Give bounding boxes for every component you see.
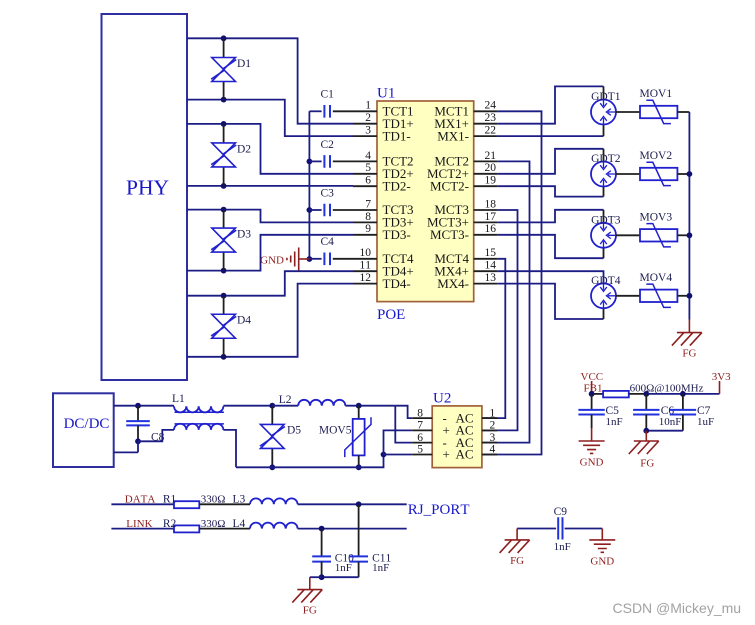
svg-text:13: 13 <box>485 272 497 284</box>
svg-text:600Ω@100MHz: 600Ω@100MHz <box>630 383 704 395</box>
svg-text:PHY: PHY <box>126 176 169 200</box>
wire top rail to U2 pin8 <box>395 406 412 418</box>
U2 right pin 3 <box>482 432 497 444</box>
node MOV3 rail junction <box>687 232 693 238</box>
node C8 top junction <box>135 403 141 409</box>
wire LINK in <box>111 528 174 530</box>
svg-text:5: 5 <box>365 162 371 174</box>
wire C9 to GND <box>565 528 603 530</box>
U1 left pin 11 TD4+ <box>353 260 414 279</box>
U1 left pin 7 TCT3 <box>353 198 414 217</box>
varistor MOV4 <box>640 272 678 307</box>
svg-text:C2: C2 <box>321 139 335 151</box>
node D4 bottom junction <box>221 354 227 360</box>
svg-text:18: 18 <box>485 198 497 210</box>
node LINK/C10 junction <box>319 526 325 532</box>
node C7 junction <box>680 391 686 397</box>
svg-text:1nF: 1nF <box>335 562 352 574</box>
wire PHY pair4- to U1 pin12 TD4- <box>187 284 353 357</box>
svg-text:VCC: VCC <box>581 371 604 383</box>
node D1 bottom junction <box>221 97 227 103</box>
wire GDT2 top stub <box>603 149 605 162</box>
ground GND symbol <box>579 441 605 469</box>
U1 right pin 24 MCT1 <box>434 100 497 119</box>
svg-text:17: 17 <box>485 211 497 223</box>
wire PHY pair1- to U1 pin3 TD1- <box>187 100 353 137</box>
gas discharge tube GDT1 <box>591 91 621 125</box>
svg-text:MX1-: MX1- <box>437 128 469 143</box>
svg-text:8: 8 <box>365 211 371 223</box>
svg-text:10nF: 10nF <box>659 416 682 428</box>
svg-text:TD2-: TD2- <box>383 178 411 193</box>
U2 left pin 8 <box>412 407 473 425</box>
wire bottom rail <box>236 455 384 468</box>
U2 right pin 1 <box>482 407 497 419</box>
svg-text:MOV2: MOV2 <box>640 150 673 162</box>
frame-ground FG symbol <box>292 590 322 617</box>
svg-text:7: 7 <box>417 420 423 432</box>
PHY block <box>102 14 188 380</box>
svg-text:GDT1: GDT1 <box>591 91 621 103</box>
wire U1 pin14 MX4+ to GDT4 top <box>498 271 604 283</box>
wire MOV1 to FG rail <box>677 111 689 113</box>
svg-text:GND: GND <box>590 555 614 567</box>
TVS diode D2 <box>211 143 251 167</box>
svg-text:6: 6 <box>365 175 371 187</box>
capacitor C5 <box>578 394 622 428</box>
U1 right pin 23 MX1+ <box>434 112 497 131</box>
svg-text:FG: FG <box>510 555 524 567</box>
U2 right pin 2 <box>482 420 497 432</box>
wire D4 stubs <box>223 296 225 315</box>
U1 left pin 10 TCT4 <box>353 247 414 266</box>
svg-text:L3: L3 <box>233 493 246 505</box>
wire branch to U2 pin7 <box>384 430 413 454</box>
wire U1 pin22 MX1- to GDT1 bottom <box>498 135 604 137</box>
wire DATA in <box>111 503 174 505</box>
node C6 junction <box>643 391 649 397</box>
U1 left pin 12 TD4- <box>353 272 411 291</box>
svg-text:C9: C9 <box>554 506 568 518</box>
svg-text:4: 4 <box>490 444 496 456</box>
svg-text:GDT3: GDT3 <box>591 214 621 226</box>
wire R1 to L3 <box>199 503 250 505</box>
wire GDT3 bottom stub <box>603 248 605 258</box>
wire C7 bottom to C6 bottom <box>646 430 683 432</box>
frame-ground FG symbol <box>629 441 659 470</box>
wire FB1 to 3V3 <box>646 393 719 395</box>
svg-text:6: 6 <box>417 432 423 444</box>
U1 right pin 17 MCT3+ <box>427 211 498 230</box>
svg-text:20: 20 <box>485 162 497 174</box>
svg-text:C4: C4 <box>321 236 335 248</box>
node D2 top junction <box>221 121 227 127</box>
wire to FG symbol <box>310 576 322 578</box>
node VCC/C5 junction <box>589 391 595 397</box>
node C10/C11 bottom junction <box>319 574 325 580</box>
power port VCC <box>581 371 604 394</box>
varistor MOV1 <box>640 88 678 123</box>
svg-text:3: 3 <box>365 125 371 137</box>
svg-text:22: 22 <box>485 125 497 137</box>
svg-text:12: 12 <box>360 272 372 284</box>
U1 right pin 16 MCT3- <box>430 223 498 242</box>
svg-text:L1: L1 <box>172 393 185 405</box>
wire U1 pin20 MCT2+ to GDT2 top <box>498 149 604 174</box>
svg-text:C3: C3 <box>321 187 335 199</box>
wire GDT to MOV1 <box>616 111 640 113</box>
TVS diode D4 <box>211 314 251 338</box>
inductor L1 common-mode choke <box>172 393 224 430</box>
wire MOV2 to FG rail <box>677 173 689 175</box>
svg-text:CSDN @Mickey_mu: CSDN @Mickey_mu <box>613 600 742 616</box>
wire D5 top to L2 <box>272 405 298 407</box>
wire GDT1 top stub <box>603 86 605 99</box>
resistor R2 <box>163 518 226 532</box>
wire C11 bottom to C10 bottom <box>322 576 359 578</box>
svg-text:3: 3 <box>490 432 496 444</box>
capacitor C7 <box>670 394 714 431</box>
svg-text:RJ_PORT: RJ_PORT <box>408 502 470 518</box>
U2 left pin 7 <box>412 420 473 438</box>
wire C5 to GND <box>591 428 593 441</box>
inductor L3 <box>233 493 298 505</box>
wire PHY pair2- to U1 pin6 TD2- <box>187 185 353 187</box>
wire FG to C9 <box>517 528 556 530</box>
svg-text:10: 10 <box>360 247 372 259</box>
node DATA/C11 junction <box>356 501 362 507</box>
capacitor C8 <box>126 406 164 444</box>
wire PHY pair2+ to U1 pin5 TD2+ <box>187 124 353 174</box>
varistor MOV5 <box>319 406 371 468</box>
U2 left pin 5 <box>412 444 473 462</box>
wire to GND symbol <box>601 529 603 540</box>
svg-text:MOV3: MOV3 <box>640 212 673 224</box>
svg-text:11: 11 <box>360 260 372 272</box>
wire DC/DC bottom output <box>114 441 138 452</box>
wire center-tap cap rail <box>308 111 310 259</box>
node C6/C7 bottom junction <box>643 428 649 434</box>
svg-text:1nF: 1nF <box>372 562 389 574</box>
wire to FG symbol <box>645 431 647 441</box>
U1 right pin 21 MCT2 <box>434 150 497 169</box>
wire branch to U2 pin5 <box>384 454 413 456</box>
svg-text:8: 8 <box>417 407 423 419</box>
svg-text:L4: L4 <box>233 518 246 530</box>
wire R2 to L4 <box>199 528 250 530</box>
svg-text:TD4-: TD4- <box>383 276 411 291</box>
U1 left pin 3 TD1- <box>353 125 411 144</box>
svg-text:GDT2: GDT2 <box>591 153 621 165</box>
TVS diode D1 <box>211 58 251 82</box>
node C8 bottom junction <box>135 438 141 444</box>
wire MOV3 to FG rail <box>677 234 689 236</box>
U1 right pin 22 MX1- <box>437 125 497 144</box>
capacitor C6 <box>633 394 681 431</box>
U1 left pin 5 TD2+ <box>353 162 414 181</box>
TVS diode D5 <box>260 424 301 448</box>
wire C8 bottom to L1 winding B <box>138 430 174 441</box>
varistor MOV2 <box>640 150 678 185</box>
svg-text:D3: D3 <box>237 229 251 241</box>
wire L2 to MOV5 top <box>345 405 395 407</box>
wire DC/DC top output <box>114 405 174 407</box>
wire PHY pair3- to U1 pin9 TD3- <box>187 235 353 271</box>
svg-text:1: 1 <box>490 407 496 419</box>
node U2 pin5/pin7 branch junction <box>381 452 387 458</box>
wire bus MCT3 pin18 to U2 pin2 <box>482 210 518 430</box>
capacitor C9 <box>554 506 571 553</box>
DC/DC block <box>53 393 114 467</box>
svg-text:FG: FG <box>682 348 696 360</box>
wire branch to U2 pin6 <box>395 406 412 443</box>
svg-text:D1: D1 <box>237 58 251 70</box>
wire D5 stubs <box>271 406 273 425</box>
svg-text:5: 5 <box>417 444 423 456</box>
U1 left pin 6 TD2- <box>353 175 411 194</box>
svg-text:2: 2 <box>490 420 496 432</box>
ground GND symbol <box>589 540 615 568</box>
node C2 tap junction <box>307 159 313 165</box>
wire U1 pin17 MCT3+ to GDT3 top <box>498 210 604 223</box>
svg-text:D4: D4 <box>237 315 251 327</box>
svg-text:D2: D2 <box>237 143 251 155</box>
svg-text:FG: FG <box>303 605 317 617</box>
svg-text:MX4-: MX4- <box>437 276 469 291</box>
wire GDT1 bottom stub <box>603 125 605 137</box>
U1 left pin 4 TCT2 <box>353 150 414 169</box>
node C3 tap junction <box>307 207 313 213</box>
svg-text:9: 9 <box>365 223 371 235</box>
wire L4 out <box>298 528 407 530</box>
svg-text:DC/DC: DC/DC <box>64 416 110 432</box>
inductor L2 <box>279 394 346 406</box>
svg-text:15: 15 <box>485 247 497 259</box>
svg-text:GND: GND <box>260 255 284 267</box>
wire bus MCT2 pin21 to U2 pin3 <box>482 161 530 442</box>
svg-text:MCT3-: MCT3- <box>430 227 469 242</box>
inductor L4 <box>233 518 298 530</box>
U1 right pin 14 MX4+ <box>434 260 497 279</box>
node MOV4 rail junction <box>687 293 693 299</box>
svg-text:R1: R1 <box>163 493 177 505</box>
U1 right pin 18 MCT3 <box>434 198 497 217</box>
wire GDT to MOV4 <box>616 295 640 297</box>
svg-text:U2: U2 <box>433 391 451 407</box>
svg-text:GND: GND <box>580 457 604 469</box>
svg-text:23: 23 <box>485 112 497 124</box>
U1 left pin 8 TD3+ <box>353 211 414 230</box>
capacitor C1 <box>309 89 353 118</box>
wire GDT4 bottom stub <box>603 308 605 319</box>
svg-text:19: 19 <box>485 175 497 187</box>
svg-text:+: + <box>443 447 450 462</box>
svg-text:3V3: 3V3 <box>712 371 731 383</box>
capacitor C2 <box>309 139 353 168</box>
wire U1 pin23 MX1+ to GDT1 top <box>498 86 604 123</box>
wire D2 stubs <box>223 124 225 143</box>
varistor MOV3 <box>640 212 678 247</box>
wire rail to FG symbol <box>688 320 690 333</box>
U2 left pin 6 <box>412 432 473 450</box>
IC U1 POE transformer <box>377 85 474 322</box>
wire MOV FG rail <box>688 112 690 320</box>
svg-text:7: 7 <box>365 198 371 210</box>
svg-text:1: 1 <box>365 100 371 112</box>
wire PHY pair4+ to U1 pin11 TD4+ <box>187 271 353 296</box>
TVS diode D3 <box>211 228 251 252</box>
svg-text:C1: C1 <box>321 89 335 101</box>
node D5 bottom junction <box>269 464 275 470</box>
capacitor C3 <box>309 187 353 216</box>
svg-text:1nF: 1nF <box>554 541 571 553</box>
wire L1 winding A out <box>223 405 272 407</box>
wire U1 pin13 MX4- to GDT4 bottom <box>498 284 604 319</box>
node D2 bottom junction <box>221 183 227 189</box>
node MOV2 rail junction <box>687 171 693 177</box>
resistor R1 <box>163 493 226 508</box>
node MOV5 bottom junction <box>356 464 362 470</box>
node D3 bottom junction <box>221 268 227 274</box>
U1 right pin 19 MCT2- <box>430 175 498 194</box>
svg-text:MCT2-: MCT2- <box>430 178 469 193</box>
wire PHY pair3+ to U1 pin8 TD3+ <box>187 210 353 223</box>
svg-text:2: 2 <box>365 112 371 124</box>
svg-text:1nF: 1nF <box>606 416 623 428</box>
U1 right pin 20 MCT2+ <box>427 162 498 181</box>
svg-text:14: 14 <box>485 260 497 272</box>
IC U2 bridge <box>432 391 482 468</box>
frame-ground FG symbol <box>672 333 702 360</box>
ferrite bead FB1 <box>584 383 647 398</box>
U1 left pin 1 TCT1 <box>353 100 414 119</box>
svg-text:4: 4 <box>365 150 371 162</box>
gas discharge tube GDT2 <box>591 153 621 187</box>
U1 right pin 13 MX4- <box>437 272 497 291</box>
power port 3V3 <box>712 371 731 394</box>
power port GND at C4 <box>260 248 309 271</box>
svg-text:TD1-: TD1- <box>383 128 411 143</box>
gas discharge tube GDT4 <box>591 275 621 309</box>
svg-text:MOV5: MOV5 <box>319 425 352 437</box>
svg-text:POE: POE <box>377 307 405 323</box>
wire D3 stubs <box>223 210 225 229</box>
node D5 top junction <box>269 403 275 409</box>
svg-text:MOV1: MOV1 <box>640 88 673 100</box>
wire to FG symbol <box>516 529 518 540</box>
node C4 tap / GND junction <box>307 256 313 262</box>
wire U1 pin19 MCT2- to GDT2 bottom <box>498 186 604 196</box>
svg-text:21: 21 <box>485 150 497 162</box>
wire bus MCT4 pin15 to U2 pin1 <box>482 259 505 418</box>
svg-text:D5: D5 <box>287 425 301 437</box>
svg-text:FG: FG <box>640 458 654 470</box>
wire D1 stubs <box>223 38 225 57</box>
svg-text:AC: AC <box>455 447 473 462</box>
U1 right pin 15 MCT4 <box>434 247 497 266</box>
svg-text:U1: U1 <box>377 85 395 101</box>
svg-text:MOV4: MOV4 <box>640 272 673 284</box>
node D1 top junction <box>221 35 227 41</box>
node D3 top junction <box>221 207 227 213</box>
wire GDT to MOV2 <box>616 173 640 175</box>
wire GDT3 top stub <box>603 210 605 223</box>
capacitor C11 <box>349 504 391 577</box>
wire PHY pair1+ to U1 pin2 TD1+ <box>187 38 353 123</box>
U1 left pin 9 TD3- <box>353 223 411 242</box>
wire L1 winding B out to bottom rail <box>223 430 236 467</box>
svg-text:R2: R2 <box>163 518 177 530</box>
wire GDT to MOV3 <box>616 234 640 236</box>
svg-text:L2: L2 <box>279 394 292 406</box>
wire GDT2 bottom stub <box>603 187 605 197</box>
svg-text:16: 16 <box>485 223 497 235</box>
svg-text:1uF: 1uF <box>697 416 714 428</box>
U2 right pin 4 <box>482 444 497 456</box>
node MOV5 top junction <box>356 403 362 409</box>
svg-text:GDT4: GDT4 <box>591 275 621 287</box>
capacitor C10 <box>312 529 354 578</box>
wire MOV4 to FG rail <box>677 295 689 297</box>
svg-text:24: 24 <box>485 100 497 112</box>
wire L3 to RJ_PORT <box>298 503 407 505</box>
gas discharge tube GDT3 <box>591 214 621 248</box>
wire U1 pin16 MCT3- to GDT3 bottom <box>498 235 604 258</box>
node D4 top junction <box>221 293 227 299</box>
wire bus MCT1 pin24 to U2 pin4 <box>482 111 542 454</box>
U1 left pin 2 TD1+ <box>353 112 414 131</box>
frame-ground FG symbol <box>500 540 530 567</box>
capacitor C4 <box>309 236 353 265</box>
svg-text:TD3-: TD3- <box>383 227 411 242</box>
